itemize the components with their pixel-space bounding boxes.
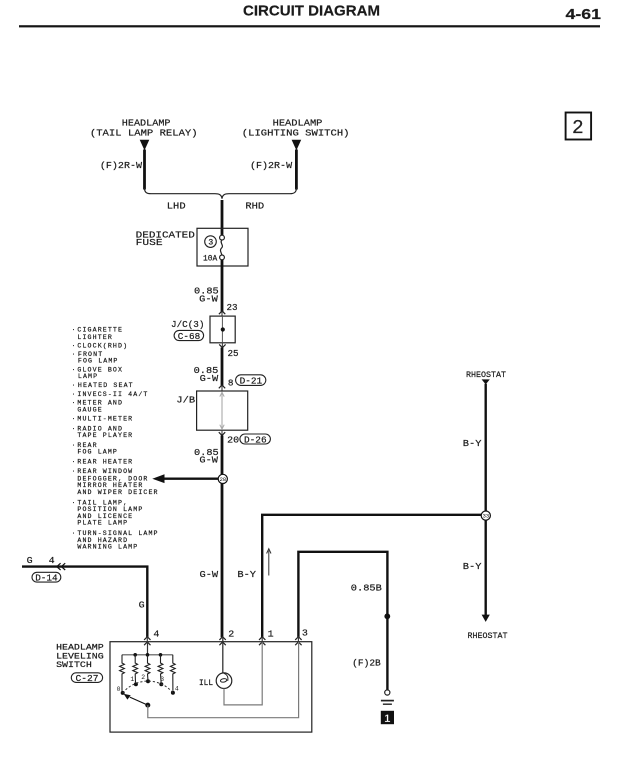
svg-text:·: ·	[72, 351, 77, 358]
svg-text:8: 8	[228, 378, 234, 389]
header rule	[19, 25, 600, 27]
svg-text:C-68: C-68	[178, 331, 201, 342]
svg-text:C-27: C-27	[76, 673, 99, 684]
svg-text:1: 1	[384, 713, 390, 725]
wire brace to fuse	[221, 200, 224, 237]
svg-text:25: 25	[228, 348, 239, 359]
fuse element	[220, 235, 225, 240]
resistor R2	[133, 655, 138, 683]
svg-text:23: 23	[227, 302, 238, 313]
svg-text:4: 4	[153, 628, 159, 639]
contact 2	[146, 679, 150, 683]
svg-text:MIRROR HEATER: MIRROR HEATER	[77, 482, 143, 489]
lamp to pin 1 route	[224, 642, 262, 705]
wire RHD feed	[295, 150, 298, 190]
svg-text:(F)2R-W: (F)2R-W	[100, 160, 142, 171]
arrow from headlamp lighting switch	[292, 140, 302, 151]
wire LHD feed	[143, 150, 146, 190]
resistor bus bar	[122, 654, 173, 656]
svg-text:MULTI-METER: MULTI-METER	[77, 415, 133, 422]
svg-text:FOG LAMP: FOG LAMP	[77, 449, 118, 456]
svg-text:·: ·	[72, 530, 77, 537]
wire break chevrons	[57, 563, 65, 570]
wiper to pin 3 route	[148, 642, 299, 718]
pin 2 arrow	[219, 637, 225, 646]
svg-text:·: ·	[72, 442, 77, 449]
svg-text:LHD: LHD	[167, 201, 186, 212]
connector label C-27	[71, 673, 102, 683]
pin 25 arrow	[221, 343, 223, 348]
svg-text:4-61: 4-61	[566, 6, 602, 23]
svg-text:G-W: G-W	[199, 294, 218, 305]
connector label D-21	[236, 375, 266, 386]
svg-text:0.85B: 0.85B	[351, 582, 382, 593]
svg-text:RHD: RHD	[245, 201, 264, 212]
wire junction 33 to rheostat bottom	[485, 520, 487, 616]
ground reference box 1	[381, 711, 394, 724]
svg-text:(F)2R-W: (F)2R-W	[250, 160, 292, 171]
wire rheostat to junction 33	[485, 384, 487, 511]
svg-text:GAUGE: GAUGE	[77, 406, 102, 413]
svg-text:RHEOSTAT: RHEOSTAT	[468, 631, 508, 641]
arrow to rheostat bottom	[482, 615, 490, 622]
contact 4	[171, 691, 175, 695]
connector label D-26	[240, 434, 271, 444]
pin 2 wire into lamp	[222, 637, 224, 674]
svg-text:3: 3	[302, 627, 308, 638]
svg-text:CLOCK(RHD): CLOCK(RHD)	[77, 343, 128, 350]
svg-text:4: 4	[49, 555, 55, 566]
wire fuse to J/C(3)	[221, 260, 224, 312]
svg-text:·: ·	[72, 400, 77, 407]
svg-text:10A: 10A	[203, 253, 218, 263]
contact 0	[121, 691, 125, 695]
svg-text:ILL: ILL	[199, 678, 213, 688]
arrow to accessory list	[163, 478, 221, 480]
svg-text:·: ·	[72, 391, 77, 398]
fuse box	[197, 228, 248, 266]
resistor R1	[120, 655, 125, 691]
svg-text:HEATED SEAT: HEATED SEAT	[78, 382, 134, 389]
wire pin 3 to ground	[298, 552, 387, 690]
brace joining LHD/RHD wires	[145, 188, 297, 199]
svg-text:SWITCH: SWITCH	[56, 660, 92, 670]
pin 8 arrow	[221, 385, 223, 392]
svg-text:0: 0	[117, 686, 121, 693]
svg-text:RHEOSTAT: RHEOSTAT	[466, 370, 506, 380]
svg-text:CIGARETTE: CIGARETTE	[77, 326, 123, 333]
wire to D-14	[22, 567, 147, 637]
svg-text:3: 3	[160, 676, 164, 683]
svg-text:B-Y: B-Y	[463, 438, 482, 449]
svg-text:J/C(3): J/C(3)	[171, 319, 204, 330]
svg-text:4: 4	[175, 686, 179, 693]
svg-text:WARNING LAMP: WARNING LAMP	[77, 543, 138, 550]
svg-text:D-26: D-26	[244, 434, 267, 445]
svg-text:G-W: G-W	[200, 373, 219, 384]
page section box 2	[566, 113, 592, 140]
svg-text:B-Y: B-Y	[463, 561, 482, 572]
svg-text:(TAIL LAMP RELAY): (TAIL LAMP RELAY)	[90, 128, 198, 139]
arrow from headlamp tail lamp relay	[140, 140, 150, 151]
direction arrow beside pin 1 wire	[268, 551, 270, 576]
svg-text:1: 1	[130, 676, 134, 683]
svg-text:FUSE: FUSE	[136, 237, 163, 248]
svg-text:G-W: G-W	[199, 455, 218, 466]
svg-text:·: ·	[72, 468, 77, 475]
svg-text:33: 33	[483, 514, 489, 520]
wire through J/B	[221, 392, 223, 430]
svg-text:D-14: D-14	[35, 573, 58, 584]
svg-text:·: ·	[72, 343, 77, 350]
node dot inside J/C(3)	[221, 316, 223, 343]
splice junction 28	[218, 474, 227, 483]
svg-text:28: 28	[220, 477, 226, 483]
resistor R4	[158, 655, 163, 683]
contact 1	[134, 682, 138, 686]
resistor R5	[170, 655, 175, 691]
bus node dots	[133, 653, 137, 657]
svg-text:G: G	[27, 555, 33, 566]
arrow from rheostat	[482, 379, 490, 384]
svg-text:PLATE LAMP: PLATE LAMP	[77, 520, 128, 527]
fuse number circle 3	[205, 236, 217, 248]
pin 1 arrow	[259, 637, 265, 646]
pin 3 arrow	[295, 637, 301, 646]
ACCESSORY LIST (loads fed from splice 28)	[72, 326, 159, 550]
wire B-Y horizontal to pin 1	[262, 515, 481, 637]
switch internal: pin 4 stub to resistor bus	[147, 642, 149, 655]
svg-text:·: ·	[72, 366, 77, 373]
svg-text:FOG LAMP: FOG LAMP	[78, 358, 119, 365]
pin 23 arrow	[219, 311, 225, 314]
connector label D-14	[32, 572, 61, 582]
svg-text:LIGHTER: LIGHTER	[77, 334, 113, 341]
wiper arm	[130, 697, 148, 705]
svg-text:G: G	[139, 599, 145, 610]
svg-text:·: ·	[72, 499, 77, 506]
svg-text:J/B: J/B	[176, 395, 195, 406]
wire J/C(3) to J/B	[221, 348, 224, 386]
ground symbol	[385, 690, 390, 695]
svg-text:AND WIPER DEICER: AND WIPER DEICER	[77, 489, 158, 496]
svg-text:INVECS-II 4A/T: INVECS-II 4A/T	[77, 391, 148, 398]
svg-text:·: ·	[72, 426, 77, 433]
svg-text:2: 2	[141, 674, 145, 681]
svg-text:·: ·	[72, 415, 77, 422]
switch box	[110, 642, 312, 732]
node dot on ground wire	[384, 613, 390, 619]
connector label C-68	[174, 330, 204, 340]
svg-text:20: 20	[227, 434, 239, 445]
svg-text:G-W: G-W	[200, 569, 219, 580]
svg-text:REAR HEATER: REAR HEATER	[77, 459, 133, 466]
selector dashed arc	[123, 681, 173, 693]
svg-text:·: ·	[72, 326, 77, 333]
svg-text:REAR WINDOW: REAR WINDOW	[77, 468, 133, 475]
pin 20 arrow	[221, 430, 223, 436]
svg-text:(LIGHTING SWITCH): (LIGHTING SWITCH)	[242, 128, 350, 139]
resistor R3	[145, 655, 150, 680]
svg-text:2: 2	[228, 628, 234, 639]
svg-text:CIRCUIT DIAGRAM: CIRCUIT DIAGRAM	[243, 2, 380, 19]
wire J/B to junction 28	[221, 436, 224, 638]
svg-text:·: ·	[72, 382, 77, 389]
contact 3	[159, 682, 163, 686]
svg-text:(F)2B: (F)2B	[352, 658, 381, 669]
wiper pivot	[145, 703, 150, 708]
pin 4 arrow	[144, 637, 150, 646]
svg-text:2: 2	[572, 117, 584, 139]
svg-text:3: 3	[208, 238, 213, 248]
svg-text:D-21: D-21	[240, 376, 263, 387]
svg-text:1: 1	[268, 628, 274, 639]
svg-text:TAPE PLAYER: TAPE PLAYER	[77, 432, 133, 439]
splice junction 33	[481, 511, 490, 520]
svg-text:LAMP: LAMP	[78, 373, 98, 380]
svg-text:·: ·	[72, 459, 77, 466]
svg-text:B-Y: B-Y	[237, 569, 256, 580]
